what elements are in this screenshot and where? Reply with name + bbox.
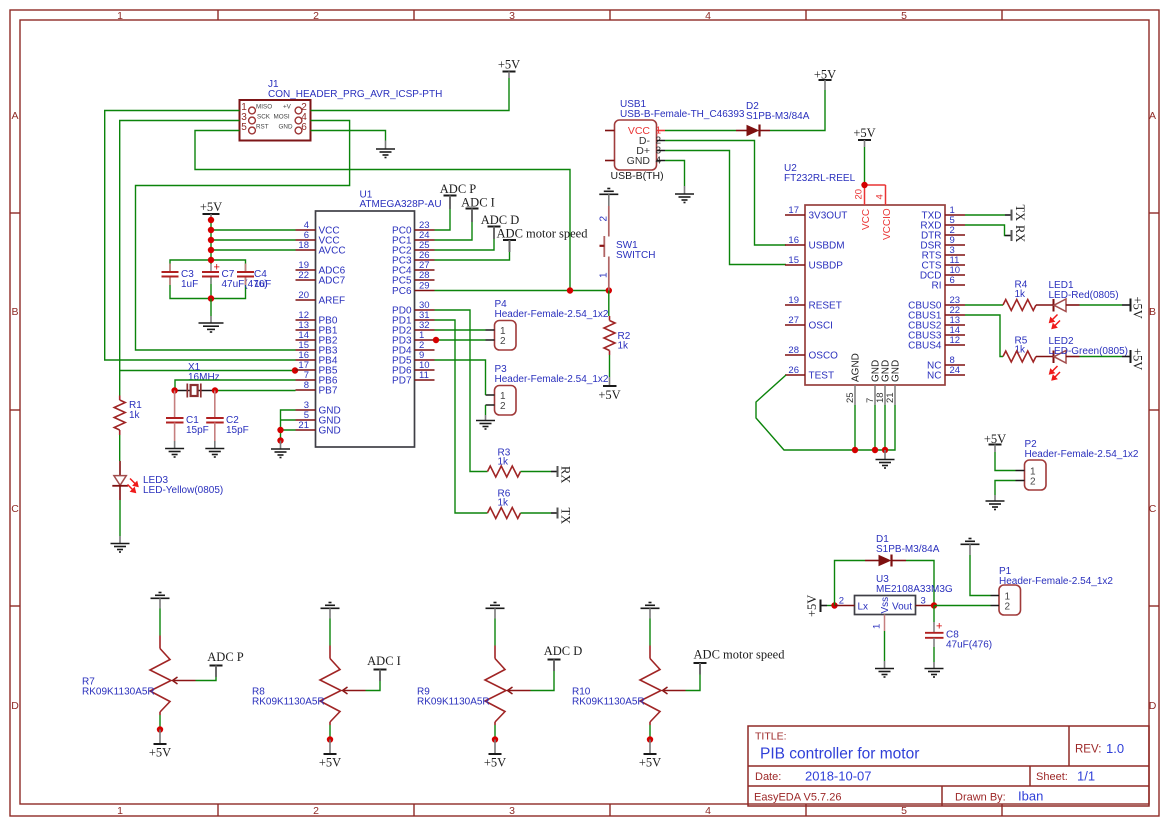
wire SCK: J1 pin3 to U1 PB5 and down to R1 <box>120 121 296 396</box>
svg-text:1: 1 <box>117 10 123 22</box>
svg-text:RK09K1130A5R: RK09K1130A5R <box>252 697 325 708</box>
svg-text:A: A <box>1149 110 1156 122</box>
svg-text:2: 2 <box>1030 477 1036 488</box>
power flag +5V (below R9) <box>484 740 506 770</box>
svg-text:+5V: +5V <box>319 756 341 770</box>
net label ADC P (to PC0) <box>440 182 477 209</box>
netflag RX (at U2 RXD) <box>1005 225 1027 242</box>
ground (above P1, inverted) <box>961 539 980 556</box>
frame column labels bottom <box>117 805 907 817</box>
wire MISO: J1 pin1 to U1 PB4 <box>105 111 296 361</box>
svg-text:B: B <box>11 306 18 318</box>
svg-text:AREF: AREF <box>319 296 346 307</box>
wire cap top rail <box>170 260 246 272</box>
svg-text:47uF(476): 47uF(476) <box>946 640 992 651</box>
wire P3 pin2 to ground <box>485 405 487 415</box>
svg-text:C: C <box>1149 503 1157 515</box>
wire cap bottom rail <box>170 277 246 299</box>
power flag +5V (right of D2) <box>814 68 836 91</box>
svg-text:SWITCH: SWITCH <box>616 250 655 261</box>
frame column labels top <box>117 10 907 22</box>
wire +5V to U2 VCC/VCCIO <box>864 147 866 185</box>
svg-text:6: 6 <box>950 275 955 286</box>
svg-text:15: 15 <box>788 255 799 266</box>
IC U1 ATMEGA328P-AU <box>296 190 442 448</box>
wire PD0 to R3 <box>435 310 488 472</box>
wire U2 TXD to TX flag <box>965 214 1005 216</box>
svg-text:8: 8 <box>304 380 309 391</box>
potentiometer R10 RK09K1130A5R <box>572 646 686 726</box>
svg-text:PB7: PB7 <box>319 386 338 397</box>
junction dot U3 Lx <box>831 602 837 608</box>
wire ground to R8 <box>329 619 331 646</box>
wire D1 to Vout node <box>906 561 934 606</box>
svg-text:ADC P: ADC P <box>207 650 244 664</box>
svg-text:ADC7: ADC7 <box>319 276 346 287</box>
svg-text:22: 22 <box>298 270 309 281</box>
resistor R6 1k <box>488 489 521 519</box>
svg-text:ADC I: ADC I <box>367 654 401 668</box>
wire ground to R10 <box>649 619 651 646</box>
svg-text:1.0: 1.0 <box>1106 741 1124 756</box>
wire R8 bottom to +5V <box>329 725 331 740</box>
wire C8 to ground <box>933 647 935 662</box>
svg-text:ADC D: ADC D <box>544 644 583 658</box>
wire R8 wiper to net label <box>366 681 381 691</box>
svg-text:GND: GND <box>319 426 341 437</box>
svg-text:+5V: +5V <box>484 756 506 770</box>
ground (above R9, inverted) <box>486 603 505 619</box>
svg-text:VCCIO: VCCIO <box>882 208 893 240</box>
connector J1 CON_HEADER_PRG_AVR_ICSP-PTH <box>240 79 443 141</box>
wire PB7 to crystal right / C2 <box>215 390 296 392</box>
svg-text:26: 26 <box>788 365 799 376</box>
wire USB D+ to U2 USBDP <box>665 151 786 265</box>
wire PC2 to ADC D <box>435 239 495 250</box>
wire D2 to +5V <box>770 90 825 131</box>
ground (below J1) <box>376 141 395 158</box>
svg-text:LED-Yellow(0805): LED-Yellow(0805) <box>143 485 223 496</box>
svg-text:OSCI: OSCI <box>809 321 833 332</box>
svg-text:D: D <box>11 700 19 712</box>
wire +V: J1 pin2 to +5V <box>311 78 510 111</box>
svg-text:C: C <box>11 503 19 515</box>
wire P1 pin1 to ground <box>970 555 991 596</box>
wire USB VCC to D2 <box>665 130 736 132</box>
svg-text:3: 3 <box>509 805 515 817</box>
wire U3 Vss to ground <box>884 631 886 661</box>
crystal X1 16MHz <box>175 362 220 398</box>
connector USB1 USB-B-Female-TH_C46393 <box>605 99 745 182</box>
capacitor C3 1uF <box>162 264 199 291</box>
svg-text:USB-B-Female-TH_C46393: USB-B-Female-TH_C46393 <box>620 109 745 120</box>
svg-text:RX: RX <box>559 466 573 483</box>
svg-text:EasyEDA V5.7.26: EasyEDA V5.7.26 <box>754 792 841 804</box>
svg-text:25: 25 <box>845 392 856 403</box>
capacitor C8 47uF(476) polarized <box>925 621 992 651</box>
wire R10 bottom to +5V <box>649 725 651 740</box>
capacitor C2 15pF <box>206 391 249 442</box>
diode D1 S1PB-M3/84A <box>865 534 940 567</box>
svg-text:1k: 1k <box>498 498 510 509</box>
wire USB GND to ground <box>665 161 685 187</box>
capacitor C7 47uF(476) polarized <box>202 262 268 291</box>
ground (below U3 Vss) <box>875 661 894 677</box>
svg-text:+5V: +5V <box>149 746 171 760</box>
svg-text:RX: RX <box>1013 225 1027 242</box>
svg-text:B: B <box>1149 306 1156 318</box>
svg-text:1/1: 1/1 <box>1077 769 1095 784</box>
net label ADC I (to PC1) <box>461 196 495 223</box>
svg-text:ADC D: ADC D <box>481 213 520 227</box>
svg-text:20: 20 <box>298 290 309 301</box>
wire U2 TEST/AGND/GND to ground <box>756 375 895 450</box>
wire Vout to P1 pin2 <box>934 605 991 607</box>
resistor R3 1k <box>488 448 521 478</box>
junction dot crystal right <box>212 387 218 393</box>
wire GND: J1 pin6 to ground <box>311 131 386 141</box>
svg-text:5: 5 <box>901 805 907 817</box>
connector P3 Header-Female-2.54_1x2 <box>486 364 609 415</box>
svg-text:A: A <box>11 110 18 122</box>
wire U2 RXD to RX flag <box>965 225 1005 236</box>
svg-text:3V3OUT: 3V3OUT <box>809 211 848 222</box>
LED LED3 LED-Yellow(0805) <box>112 461 223 500</box>
svg-text:AGND: AGND <box>851 353 862 382</box>
svg-text:11: 11 <box>419 370 429 381</box>
switch SW1 SWITCH <box>599 206 656 291</box>
svg-text:20: 20 <box>854 189 865 200</box>
junction dot below R7 <box>157 726 163 732</box>
resistor R1 1k <box>114 396 142 436</box>
svg-text:ATMEGA328P-AU: ATMEGA328P-AU <box>360 199 442 210</box>
ground (below U1 GND bus) <box>271 441 290 458</box>
junction dot below R9 <box>492 736 498 742</box>
svg-text:S1PB-M3/84A: S1PB-M3/84A <box>876 544 940 555</box>
netflag TX (at U2 TXD) <box>1005 205 1027 222</box>
svg-text:+5V: +5V <box>639 756 661 770</box>
svg-text:RI: RI <box>932 281 942 292</box>
power flag +5V (below R2) <box>598 377 620 402</box>
ground (above R7, inverted) <box>151 593 170 609</box>
svg-text:2: 2 <box>500 336 506 347</box>
svg-text:Date:: Date: <box>755 771 781 783</box>
svg-text:Vss: Vss <box>880 597 891 614</box>
diode D2 S1PB-M3/84A <box>736 101 810 137</box>
svg-text:2018-10-07: 2018-10-07 <box>805 769 872 784</box>
svg-text:SCK: SCK <box>257 114 271 121</box>
svg-text:1: 1 <box>117 805 123 817</box>
ground (below P3) <box>476 415 495 429</box>
svg-text:CBUS4: CBUS4 <box>908 341 942 352</box>
svg-text:PC6: PC6 <box>392 286 412 297</box>
junction dot on PB5 wire near pin17 <box>292 367 298 373</box>
connector P4 Header-Female-2.54_1x2 <box>486 299 609 350</box>
power flag +5V (below R10) <box>639 740 661 770</box>
IC U2 FT232RL-REEL <box>784 163 965 405</box>
svg-text:21: 21 <box>298 420 309 431</box>
svg-text:RK09K1130A5R: RK09K1130A5R <box>417 697 490 708</box>
net label ADC motor speed (R10 wiper) <box>694 648 786 675</box>
wire LED3 to ground <box>119 500 121 536</box>
junction dot U3 Vout <box>931 602 937 608</box>
svg-text:ADC motor speed: ADC motor speed <box>497 227 589 241</box>
wire ground to R7 <box>159 609 161 636</box>
wire R7 wiper to net label <box>196 677 217 681</box>
wire PC6 net (U1 pin29 to switch/R2) <box>435 290 609 292</box>
LED LED1 LED-Red(0805) <box>1036 280 1119 328</box>
net label ADC I (R8 wiper) <box>367 654 401 681</box>
power flag +5V (right of LED2) <box>1122 348 1145 370</box>
svg-text:GND: GND <box>279 124 293 131</box>
IC U3 ME2108A33M3G <box>835 574 953 631</box>
wire CBUS0 to R4 <box>965 304 1003 306</box>
potentiometer R9 RK09K1130A5R <box>417 646 531 726</box>
svg-text:2: 2 <box>839 596 844 607</box>
svg-text:Vout: Vout <box>892 602 912 613</box>
svg-text:19: 19 <box>788 295 799 306</box>
svg-text:6: 6 <box>301 122 307 133</box>
svg-text:CON_HEADER_PRG_AVR_ICSP-PTH: CON_HEADER_PRG_AVR_ICSP-PTH <box>268 89 442 100</box>
svg-text:21: 21 <box>885 392 896 403</box>
junction dot below R10 <box>647 736 653 742</box>
svg-text:TX: TX <box>559 508 573 525</box>
net label ADC D (R9 wiper) <box>544 644 583 671</box>
svg-text:Sheet:: Sheet: <box>1036 771 1068 783</box>
svg-text:D: D <box>1149 700 1157 712</box>
wire U1 GND bus <box>281 410 296 441</box>
ground (below LED3) <box>111 536 130 552</box>
svg-text:ADC P: ADC P <box>440 182 477 196</box>
svg-text:GND: GND <box>891 360 902 382</box>
svg-text:2: 2 <box>599 216 610 222</box>
svg-text:+5V: +5V <box>1131 348 1145 370</box>
wire R9 wiper to net label <box>531 671 555 691</box>
svg-text:RK09K1130A5R: RK09K1130A5R <box>82 687 155 698</box>
power flag +5V (below R7) <box>149 730 171 760</box>
svg-text:1k: 1k <box>1015 345 1027 356</box>
junction dot below R8 <box>327 736 333 742</box>
svg-text:+5V: +5V <box>805 595 819 617</box>
svg-text:LED-Red(0805): LED-Red(0805) <box>1049 290 1119 301</box>
wire PD1 to R6 <box>435 320 488 513</box>
svg-text:Lx: Lx <box>858 602 869 613</box>
wire PC1 to ADC I <box>435 222 473 240</box>
svg-text:TEST: TEST <box>809 371 835 382</box>
svg-text:Iban: Iban <box>1018 789 1043 804</box>
svg-text:5: 5 <box>241 122 247 133</box>
svg-text:+5V: +5V <box>498 58 520 72</box>
capacitor C4 1uF <box>237 264 271 291</box>
svg-text:5: 5 <box>901 10 907 22</box>
svg-text:1uF: 1uF <box>254 279 271 290</box>
frame row labels left <box>11 110 19 712</box>
wire +5V to U3 Lx <box>827 605 835 607</box>
svg-text:FT232RL-REEL: FT232RL-REEL <box>784 173 856 184</box>
svg-text:NC: NC <box>927 371 941 382</box>
svg-text:3: 3 <box>921 596 926 607</box>
connector P1 Header-Female-2.54_1x2 <box>991 566 1114 615</box>
svg-text:PC5: PC5 <box>392 276 412 287</box>
ground (below P2) <box>986 495 1005 510</box>
wire D1 branch up <box>835 561 866 606</box>
svg-text:2: 2 <box>1005 602 1011 613</box>
svg-text:1k: 1k <box>498 457 510 468</box>
wire P2 pin2 to ground <box>995 481 1016 496</box>
svg-text:28: 28 <box>419 270 430 281</box>
wire USB D- to U2 USBDM <box>665 141 786 246</box>
junction dot GND bus upper <box>277 427 283 433</box>
junction dot PC6/switch <box>606 287 612 293</box>
svg-text:S1PB-M3/84A: S1PB-M3/84A <box>746 111 810 122</box>
power flag +5V (top, above J1) <box>498 58 520 79</box>
ground (above R10, inverted) <box>641 603 660 619</box>
svg-text:15pF: 15pF <box>186 425 209 436</box>
wire R1 to LED3 <box>119 435 121 461</box>
ground (above SW1, inverted) <box>599 189 618 207</box>
wire CBUS1 to R5 <box>965 315 1003 357</box>
svg-text:LED-Green(0805): LED-Green(0805) <box>1049 346 1128 357</box>
junction dot U2 VCC <box>861 182 867 188</box>
net label ADC D (to PC2) <box>481 213 520 239</box>
svg-text:4: 4 <box>705 805 711 817</box>
netflag RX <box>551 466 573 483</box>
svg-text:PD7: PD7 <box>392 376 412 387</box>
title block <box>748 726 1149 806</box>
svg-text:VCC: VCC <box>861 209 872 230</box>
svg-text:Header-Female-2.54_1x2: Header-Female-2.54_1x2 <box>495 309 609 320</box>
svg-text:28: 28 <box>788 345 799 356</box>
wire PC3 to ADC motor speed <box>435 252 510 260</box>
svg-text:+5V: +5V <box>598 388 620 402</box>
svg-text:27: 27 <box>788 315 799 326</box>
title block texts <box>754 731 1101 804</box>
svg-text:RST: RST <box>256 124 269 131</box>
svg-text:PIB controller for motor: PIB controller for motor <box>760 746 919 763</box>
svg-text:REV:: REV: <box>1075 744 1101 756</box>
svg-text:RESET: RESET <box>809 301 842 312</box>
svg-text:MOSI: MOSI <box>274 114 290 121</box>
resistor R2 1k <box>604 316 631 355</box>
svg-text:ME2108A33M3G: ME2108A33M3G <box>876 584 953 595</box>
wire MOSI: J1 pin4 to U1 PB3 <box>136 121 350 351</box>
svg-text:+V: +V <box>283 104 292 111</box>
capacitor C1 15pF <box>166 391 209 442</box>
wire R6 to TX flag <box>521 512 552 514</box>
wire +5V to P2 pin1 <box>995 452 1016 471</box>
svg-text:1: 1 <box>599 272 610 278</box>
svg-text:USB-B(TH): USB-B(TH) <box>611 170 664 182</box>
svg-text:Header-Female-2.54_1x2: Header-Female-2.54_1x2 <box>495 374 609 385</box>
ground (below C2) <box>205 441 224 457</box>
wire RST: J1 pin5 to PC6 net <box>195 131 570 291</box>
wire ground to R9 <box>494 619 496 646</box>
svg-text:4: 4 <box>705 10 711 22</box>
net label ADC P (R7 wiper) <box>207 650 244 677</box>
svg-text:16: 16 <box>788 235 799 246</box>
svg-text:RK09K1130A5R: RK09K1130A5R <box>572 697 645 708</box>
svg-text:Header-Female-2.54_1x2: Header-Female-2.54_1x2 <box>1025 449 1139 460</box>
junction dot PC6/RST <box>567 287 573 293</box>
power flag +5V (below R8) <box>319 740 341 770</box>
svg-text:+5V: +5V <box>1131 297 1145 319</box>
svg-text:+5V: +5V <box>200 200 222 214</box>
ground (above R8, inverted) <box>321 603 340 619</box>
svg-text:1k: 1k <box>618 341 630 352</box>
svg-text:2: 2 <box>500 401 506 412</box>
connector P2 Header-Female-2.54_1x2 <box>1016 439 1139 490</box>
svg-text:ADC I: ADC I <box>461 196 495 210</box>
wire PB6 to crystal left / C1 <box>175 380 296 391</box>
junction dots on +5V rail <box>208 217 214 223</box>
wire PC0 to ADC P <box>435 209 451 230</box>
svg-text:17: 17 <box>788 205 799 216</box>
power flag +5V (decoupling rail) <box>200 200 222 220</box>
ground (below U2) <box>876 450 895 468</box>
wire PD5 to P3 pin1 <box>435 360 486 395</box>
wire +5V rail down to caps and ground <box>211 220 296 299</box>
wire LED2 to +5V <box>1080 356 1123 358</box>
junction dots U2 ground bus <box>852 447 858 453</box>
svg-text:OSCO: OSCO <box>809 351 839 362</box>
frame row labels right <box>1149 110 1157 712</box>
svg-text:2: 2 <box>313 805 319 817</box>
svg-text:12: 12 <box>950 335 961 346</box>
svg-text:MISO: MISO <box>256 104 272 111</box>
wire PD3 to P4 pin2 <box>435 339 486 341</box>
svg-text:USBDM: USBDM <box>809 241 845 252</box>
wire R2 to +5V <box>609 355 611 377</box>
svg-text:29: 29 <box>419 281 430 292</box>
power flag +5V (above P2) <box>984 432 1006 452</box>
svg-text:1uF: 1uF <box>181 279 198 290</box>
junction dot at PD3 <box>433 337 439 343</box>
svg-text:18: 18 <box>298 240 309 251</box>
svg-text:24: 24 <box>950 365 961 376</box>
ground (below USB1) <box>675 186 694 203</box>
wire PD2 to P4 pin1 <box>435 329 486 331</box>
resistor R5 1k <box>1003 336 1036 363</box>
resistor R4 1k <box>1003 280 1036 311</box>
svg-text:2: 2 <box>313 10 319 22</box>
ground (below C8) <box>925 662 944 677</box>
power flag +5V (left of U3) <box>805 595 827 617</box>
power flag +5V (right of LED1) <box>1122 297 1145 319</box>
svg-text:GND: GND <box>627 155 651 167</box>
junction dot GND bus lower <box>277 437 283 443</box>
wire R9 bottom to +5V <box>494 725 496 740</box>
netflag TX <box>551 508 573 525</box>
svg-text:+: + <box>936 621 942 633</box>
ground (below decoupling rail) <box>199 316 224 332</box>
svg-text:16MHz: 16MHz <box>188 372 220 383</box>
LED LED2 LED-Green(0805) <box>1036 336 1128 380</box>
svg-text:3: 3 <box>509 10 515 22</box>
svg-text:ADC motor speed: ADC motor speed <box>694 648 786 662</box>
svg-text:Drawn By:: Drawn By: <box>955 792 1006 804</box>
wire switch to R2 <box>608 291 610 317</box>
wire Vout node down to C8 <box>933 606 935 623</box>
junction dot crystal left <box>171 387 177 393</box>
wire R10 wiper to net label <box>686 675 701 691</box>
net label ADC motor speed (to PC3) <box>497 227 589 253</box>
svg-text:AVCC: AVCC <box>319 246 346 257</box>
potentiometer R7 RK09K1130A5R <box>82 636 196 716</box>
svg-text:TITLE:: TITLE: <box>755 731 787 743</box>
svg-text:4: 4 <box>875 194 886 199</box>
svg-text:1k: 1k <box>129 410 141 421</box>
potentiometer R8 RK09K1130A5R <box>252 646 366 726</box>
